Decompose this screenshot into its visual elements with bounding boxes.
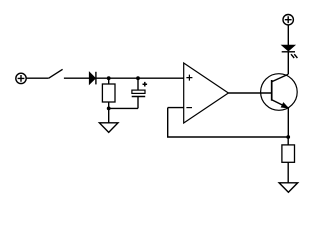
wire: diode cathode to op-amp + input [97, 77, 184, 79]
capacitor C1 (polarized electrolytic) [132, 78, 147, 108]
wire: node B to capacitor bottom [109, 107, 138, 109]
junction node C (top of C1) [136, 76, 140, 80]
resistor R1 [102, 78, 115, 108]
transistor Q1 (NPN) [261, 74, 298, 111]
wire: supply to LED anode [287, 25, 289, 45]
resistor R2 [282, 137, 295, 183]
wire: feedback from emitter node to inverting input [168, 108, 289, 137]
positive supply terminal (circled +) left [16, 73, 26, 83]
wire: inverting input stub [168, 107, 184, 109]
wire: LED cathode to collector [287, 52, 289, 74]
wire: terminal to switch pole [26, 77, 49, 79]
junction node D (emitter / feedback / R2) [286, 135, 290, 139]
LED D2 [282, 45, 298, 58]
ground (right) [279, 183, 298, 193]
switch S1 (open SPST blade) [49, 69, 63, 78]
positive supply terminal (circled +) top right [283, 15, 293, 25]
ground (left) [99, 108, 118, 132]
diode D1 [89, 72, 96, 85]
op-amp U1 [184, 63, 229, 123]
wire: switch contact to diode anode [64, 77, 90, 79]
junction node A (top of R1) [107, 76, 111, 80]
wire: op-amp output to transistor base [228, 92, 271, 94]
wire: emitter down to node D [287, 108, 289, 137]
junction node B (bottom of R1) [107, 107, 111, 111]
